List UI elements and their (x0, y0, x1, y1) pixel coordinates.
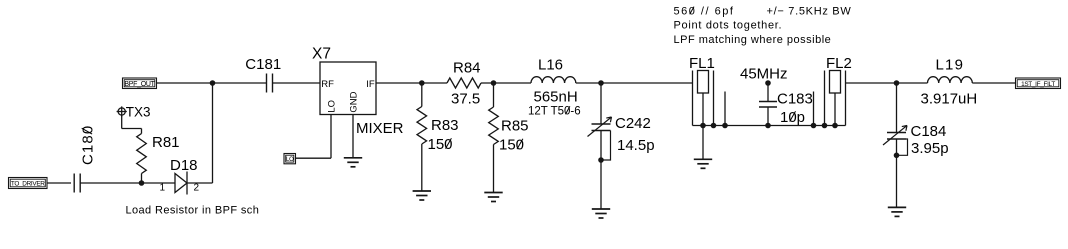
junction node C242 (598, 80, 604, 86)
capacitor C180 (74, 174, 80, 193)
svg-text:R84: R84 (453, 59, 481, 76)
wire node to D18 anode (142, 182, 176, 184)
wire mixer GND pin down (352, 115, 354, 158)
resistor R81 (137, 134, 147, 174)
svg-text:560 // 6pf: 560 // 6pf (674, 6, 735, 18)
junction node riser/top rail (210, 80, 216, 86)
svg-text:Load Resistor in BPF sch: Load Resistor in BPF sch (126, 205, 260, 217)
wire C242 bottom lead (600, 131, 602, 209)
svg-text:LO: LO (326, 100, 337, 113)
resistor R85 (489, 107, 499, 145)
variable capacitor C242 (588, 117, 612, 160)
wire TX3 to R81 top (122, 128, 142, 130)
svg-text:TO_DRIVER: TO_DRIVER (11, 181, 45, 188)
svg-text:LPF matching where possible: LPF matching where possible (674, 34, 832, 46)
ground (R83) (413, 191, 431, 200)
capacitor C183 (759, 102, 777, 108)
ground (mixer) (344, 158, 362, 167)
port LO (284, 154, 296, 164)
wire TX3 down (121, 115, 123, 128)
svg-text:150: 150 (499, 137, 524, 154)
svg-text:MIXER: MIXER (356, 120, 404, 137)
wire ground bus (693, 125, 846, 127)
svg-text:L16: L16 (538, 57, 563, 74)
junction node C242 rotor (598, 157, 604, 163)
junction bus/FL2 pin1 (822, 123, 828, 129)
svg-text:X7: X7 (312, 45, 331, 62)
wire C180 to node (80, 182, 141, 184)
svg-text:2: 2 (194, 183, 200, 194)
svg-text:565nH: 565nH (534, 89, 578, 106)
wire C184 top lead (896, 83, 898, 133)
svg-text:150: 150 (428, 136, 453, 153)
capacitor C181 (267, 74, 273, 93)
svg-text:C181: C181 (245, 56, 281, 73)
svg-text:D18: D18 (170, 157, 198, 174)
wire mixer IF to R84 (376, 82, 447, 84)
resistor R84 (447, 78, 481, 88)
junction node R81/D18 (139, 180, 145, 186)
wire R83 bottom lead (421, 144, 423, 191)
svg-text:Point dots together.: Point dots together. (674, 20, 783, 32)
junction bus/FL1 pin2 (700, 123, 706, 129)
wire mixer LO pin down (330, 115, 332, 159)
junction node C183 top (765, 80, 771, 86)
svg-text:R85: R85 (501, 118, 529, 135)
ground (C242) (592, 209, 610, 218)
crystal filter FL1 (693, 71, 726, 126)
svg-text:3.95p: 3.95p (911, 140, 949, 157)
ground (filter bus) (694, 159, 712, 168)
svg-text:FL2: FL2 (826, 55, 852, 72)
port BPF_OUT (123, 78, 157, 89)
svg-text:+/− 7.5KHz BW: +/− 7.5KHz BW (767, 6, 852, 18)
svg-text:TX3: TX3 (126, 104, 151, 119)
svg-text:12T T50-6: 12T T50-6 (528, 106, 581, 118)
wire R85 top lead (493, 83, 495, 107)
svg-text:37.5: 37.5 (451, 91, 480, 108)
svg-text:C180: C180 (80, 125, 97, 165)
variable capacitor C184 (883, 126, 908, 156)
svg-text:FL1: FL1 (689, 55, 715, 72)
svg-text:45MHz: 45MHz (740, 66, 788, 83)
svg-text:14.5p: 14.5p (617, 137, 655, 154)
junction bus/FL1 case (722, 123, 728, 129)
svg-text:R81: R81 (152, 134, 180, 151)
svg-text:RF: RF (321, 79, 334, 90)
resistor R83 (417, 107, 427, 145)
wire R83 top lead (421, 83, 423, 107)
pin label LO (326, 100, 337, 113)
junction node C183 bottom (765, 123, 771, 129)
svg-text:1ST_IF_FILT: 1ST_IF_FILT (1021, 81, 1055, 88)
label C180 (80, 125, 97, 165)
svg-text:3.917uH: 3.917uH (921, 91, 978, 108)
junction node R85 (491, 80, 497, 86)
crystal filter FL2 (814, 71, 846, 126)
junction bus/FL2 case (811, 123, 817, 129)
svg-text:LO: LO (286, 157, 294, 163)
wire riser to top rail (212, 83, 214, 183)
wire L19 to output port (972, 82, 1015, 84)
junction node R83 (419, 80, 425, 86)
svg-text:1: 1 (160, 183, 166, 194)
port TO_DRIVER (9, 178, 48, 189)
wire bus to ground (702, 126, 704, 159)
svg-text:R83: R83 (431, 117, 459, 134)
port 1ST_IF_FILT (1016, 78, 1061, 89)
svg-text:GND: GND (348, 91, 359, 112)
wire C242 top lead (600, 83, 602, 124)
wire R84 to L16 (481, 82, 531, 84)
wire R81 top lead (141, 129, 143, 134)
wire D18 cathode to riser (187, 182, 213, 184)
junction node C184 (894, 80, 900, 86)
ground (C184) (888, 207, 906, 216)
wire C184 bottom lead (896, 139, 898, 207)
svg-text:BPF_OUT: BPF_OUT (124, 81, 155, 88)
wire BPF_OUT to C181 (157, 82, 267, 84)
test point TX3 (117, 106, 127, 116)
wire to LO port (296, 157, 332, 159)
wire R85 bottom lead (493, 145, 495, 193)
wire L16 to FL1 (576, 82, 693, 84)
pin label GND (348, 91, 359, 112)
junction node C184 rotor (894, 153, 900, 159)
diode D18 (175, 172, 187, 195)
svg-text:IF: IF (366, 79, 375, 90)
svg-text:C184: C184 (911, 123, 947, 140)
svg-text:C183: C183 (777, 91, 813, 108)
junction bus/FL1 pin3 (711, 123, 717, 129)
svg-text:C242: C242 (615, 115, 651, 132)
mixer X7 box (320, 62, 376, 115)
wire TO_DRIVER to C180 (47, 182, 71, 184)
wire FL2 to L19 (846, 82, 928, 84)
wire C183 top lead (767, 83, 769, 102)
inductor L19 (928, 77, 973, 83)
junction bus/FL2 pin2 (832, 123, 838, 129)
wire C181 to mixer RF (273, 82, 321, 84)
ground (R85) (484, 193, 502, 202)
svg-text:L19: L19 (936, 57, 965, 74)
wire C183 bottom lead (767, 107, 769, 126)
wire R81 bottom lead (141, 174, 143, 184)
inductor L16 (531, 77, 576, 83)
